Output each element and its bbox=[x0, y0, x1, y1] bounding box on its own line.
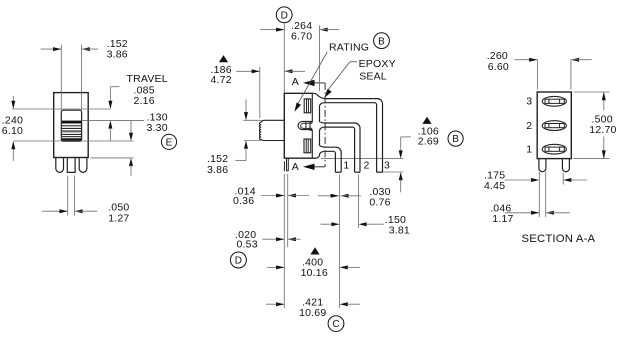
section arrow A top bbox=[292, 76, 325, 88]
svg-text:3: 3 bbox=[526, 96, 532, 108]
dim .106/2.69 (pin standoff) bbox=[383, 125, 439, 192]
svg-text:6.70: 6.70 bbox=[291, 31, 312, 43]
svg-text:4.45: 4.45 bbox=[484, 180, 505, 192]
svg-text:3.30: 3.30 bbox=[147, 122, 168, 134]
side view: right edge fillet between T1 and T2 bbox=[320, 103, 324, 123]
svg-text:EPOXY: EPOXY bbox=[359, 58, 396, 70]
svg-text:3.86: 3.86 bbox=[207, 164, 228, 176]
svg-text:6.10: 6.10 bbox=[2, 125, 23, 137]
section contact 2 bbox=[542, 121, 566, 131]
dim .186/4.72 (actuator extension) bbox=[211, 64, 306, 118]
dim .150/3.81 (pin pitch) bbox=[321, 214, 410, 237]
leader EPOXY SEAL bbox=[324, 58, 395, 98]
dim .152/3.86 (knob width, front) bbox=[41, 38, 128, 110]
note B (right) bbox=[448, 131, 463, 146]
note E bbox=[161, 134, 176, 149]
dim .020/0.53 bbox=[235, 229, 301, 250]
dim .014/0.36 (pin thickness) bbox=[233, 185, 309, 207]
dim .264/6.70 (body depth) bbox=[260, 20, 339, 93]
svg-text:B: B bbox=[452, 134, 459, 145]
svg-text:10.69: 10.69 bbox=[299, 307, 326, 319]
side view: actuator knob with serrated tip bbox=[260, 120, 285, 140]
svg-text:E: E bbox=[166, 137, 173, 148]
front view: slider window bbox=[61, 110, 81, 141]
note B (top) bbox=[374, 33, 390, 49]
side view: top slot bbox=[304, 99, 311, 113]
side view: right edge fillet between T2 and T3 bbox=[320, 127, 324, 147]
svg-text:2: 2 bbox=[526, 120, 532, 132]
flag note triangle (.106) bbox=[422, 117, 431, 124]
dim .400/10.16 bbox=[267, 256, 360, 279]
front view: right pin bbox=[79, 158, 87, 173]
svg-text:1.17: 1.17 bbox=[492, 213, 513, 225]
extension line below pin 2 bbox=[358, 175, 360, 229]
side view: body outline bbox=[284, 93, 315, 158]
svg-text:B: B bbox=[378, 36, 385, 47]
dim TRAVEL .085/2.16 bbox=[108, 73, 167, 141]
svg-text:A: A bbox=[292, 76, 299, 88]
side view: epoxy fillet top right bbox=[313, 93, 324, 98]
front view: switch body bbox=[54, 93, 88, 158]
svg-text:1.27: 1.27 bbox=[108, 213, 129, 225]
section view: body bbox=[537, 92, 571, 159]
section contact 3 bbox=[542, 96, 566, 106]
svg-text:3: 3 bbox=[384, 159, 390, 171]
svg-text:0.36: 0.36 bbox=[233, 195, 254, 207]
svg-text:D: D bbox=[235, 256, 242, 267]
svg-text:D: D bbox=[281, 10, 288, 21]
front view: slider knob (striped) bbox=[62, 121, 81, 142]
svg-text:12.70: 12.70 bbox=[589, 124, 616, 136]
side view: bottom wire pin bbox=[284, 158, 288, 171]
leader RATING bbox=[294, 42, 369, 112]
svg-text:A: A bbox=[292, 161, 299, 173]
section view: left pin bbox=[539, 159, 546, 172]
dim .130/3.30 bbox=[129, 112, 168, 177]
svg-text:C: C bbox=[332, 319, 339, 330]
svg-text:0.76: 0.76 bbox=[369, 197, 390, 209]
body bottom reference line bbox=[91, 157, 134, 159]
note C bbox=[328, 316, 344, 332]
front view: left pin bbox=[56, 158, 64, 173]
section view: right pin bbox=[562, 159, 569, 172]
svg-text:6.60: 6.60 bbox=[488, 61, 509, 73]
svg-text:TRAVEL: TRAVEL bbox=[127, 73, 168, 85]
svg-text:4.72: 4.72 bbox=[211, 74, 232, 86]
dim .260/6.60 (section width) bbox=[487, 50, 592, 90]
side view: bottom slot bbox=[304, 139, 311, 153]
svg-text:1: 1 bbox=[343, 159, 349, 171]
svg-text:0.53: 0.53 bbox=[237, 239, 258, 251]
dim .240/6.10 (window height) bbox=[2, 96, 134, 161]
svg-text:1: 1 bbox=[526, 144, 532, 156]
section cutting line A-A (dash-dot) bbox=[324, 83, 326, 167]
dim .046/1.17 (pin width) bbox=[490, 203, 570, 225]
seating plane reference line bbox=[321, 158, 403, 160]
svg-text:3.86: 3.86 bbox=[107, 48, 128, 60]
svg-text:.260: .260 bbox=[487, 50, 508, 62]
dim .152/3.86 (actuator height, side) bbox=[207, 99, 261, 176]
terminal lead to pin 3 (top, long) bbox=[324, 99, 383, 173]
knob top reference line bbox=[82, 119, 144, 121]
extension lines below section pins bbox=[538, 172, 540, 217]
extension lines below wire pin bbox=[283, 174, 285, 308]
dim .030/0.76 (lead width) bbox=[318, 186, 391, 208]
section contact 1 bbox=[542, 144, 566, 154]
svg-text:2: 2 bbox=[364, 159, 370, 171]
side view: movable contact clip bbox=[298, 121, 312, 129]
svg-text:3.81: 3.81 bbox=[389, 224, 410, 236]
terminal lead to pin 2 (middle) bbox=[324, 123, 360, 172]
svg-text:RATING: RATING bbox=[329, 42, 369, 54]
side view: inner wall with notch bbox=[310, 93, 312, 158]
extension line below pin 1 bbox=[339, 175, 341, 309]
dim .050/1.27 (pin width) bbox=[42, 176, 129, 225]
section arrow A bottom bbox=[292, 161, 325, 173]
note D (bottom) bbox=[230, 252, 246, 268]
front view: middle pin bbox=[67, 158, 75, 173]
svg-text:SECTION A-A: SECTION A-A bbox=[522, 233, 596, 245]
side view: right edge fillet bottom bbox=[316, 151, 324, 158]
svg-text:2.16: 2.16 bbox=[134, 95, 155, 107]
svg-text:2.69: 2.69 bbox=[418, 136, 439, 148]
svg-text:SEAL: SEAL bbox=[359, 71, 387, 83]
note D (top) bbox=[276, 7, 292, 23]
flag note triangle (.186) bbox=[219, 55, 228, 62]
terminal lead to pin 1 (bottom, short) bbox=[324, 147, 341, 172]
dim .421/10.69 bbox=[266, 297, 360, 319]
dim .500/12.70 (section height) bbox=[574, 92, 617, 159]
dim .175/4.45 (pin spacing) bbox=[484, 170, 587, 192]
svg-text:10.16: 10.16 bbox=[301, 267, 328, 279]
flag note triangle (.400) bbox=[310, 247, 319, 254]
svg-text:.050: .050 bbox=[108, 201, 129, 213]
